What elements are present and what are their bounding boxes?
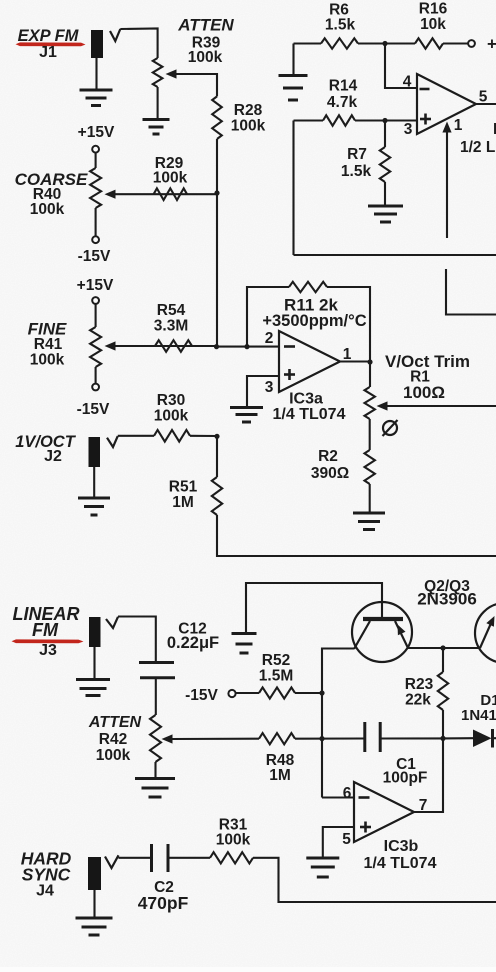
svg-text:1.5k: 1.5k [325, 17, 356, 34]
svg-text:J3: J3 [39, 642, 57, 659]
svg-text:R7: R7 [347, 146, 367, 163]
svg-text:+: + [487, 35, 496, 54]
svg-text:R54: R54 [157, 302, 186, 319]
svg-text:J2: J2 [44, 448, 62, 465]
svg-text:1/4 TL074: 1/4 TL074 [273, 406, 346, 423]
svg-text:4: 4 [403, 74, 412, 91]
svg-text:4.7k: 4.7k [327, 94, 358, 111]
svg-text:+15V: +15V [78, 124, 115, 141]
svg-text:3: 3 [404, 121, 413, 138]
svg-text:1.5k: 1.5k [341, 163, 372, 180]
svg-text:1.5M: 1.5M [259, 668, 293, 685]
svg-text:100k: 100k [30, 352, 65, 369]
svg-text:SYNC: SYNC [22, 865, 71, 885]
svg-text:R23: R23 [405, 676, 434, 693]
svg-text:22k: 22k [405, 692, 431, 709]
svg-text:R42: R42 [99, 731, 127, 748]
svg-text:IC3a: IC3a [289, 391, 323, 408]
svg-text:R28: R28 [234, 102, 263, 119]
svg-text:ATTEN: ATTEN [177, 16, 234, 35]
svg-text:FM: FM [32, 620, 59, 640]
svg-text:470pF: 470pF [138, 893, 189, 913]
svg-text:-15V: -15V [185, 687, 218, 704]
svg-text:0.22μF: 0.22μF [167, 634, 219, 652]
svg-text:100k: 100k [153, 170, 188, 187]
svg-text:100pF: 100pF [383, 770, 428, 787]
svg-text:100k: 100k [216, 832, 251, 849]
svg-text:10k: 10k [420, 16, 446, 33]
svg-text:3: 3 [265, 379, 274, 396]
svg-text:100k: 100k [188, 49, 223, 66]
svg-text:100k: 100k [231, 118, 266, 135]
svg-text:1M: 1M [269, 767, 291, 784]
svg-text:IC3b: IC3b [384, 838, 419, 855]
svg-text:5: 5 [342, 831, 351, 848]
svg-text:J1: J1 [39, 44, 57, 61]
svg-text:100Ω: 100Ω [403, 383, 445, 402]
svg-text:100k: 100k [96, 747, 131, 764]
svg-text:+3500ppm/°C: +3500ppm/°C [262, 312, 366, 330]
svg-text:EXP FM: EXP FM [18, 27, 80, 45]
svg-text:6: 6 [343, 785, 352, 802]
svg-text:1M: 1M [172, 494, 194, 511]
svg-text:-15V: -15V [78, 248, 111, 265]
svg-text:2N3906: 2N3906 [417, 590, 477, 609]
svg-text:2: 2 [265, 330, 274, 347]
svg-text:390Ω: 390Ω [311, 465, 349, 482]
svg-text:1N4148: 1N4148 [461, 707, 496, 724]
svg-text:ATTEN: ATTEN [88, 714, 142, 731]
svg-text:R52: R52 [262, 652, 290, 669]
svg-text:-15V: -15V [77, 401, 110, 418]
svg-text:1/4 TL074: 1/4 TL074 [364, 855, 437, 872]
svg-text:R30: R30 [157, 392, 185, 409]
svg-text:R14: R14 [329, 78, 358, 95]
svg-text:R41: R41 [34, 336, 63, 353]
svg-text:R2: R2 [318, 448, 338, 465]
svg-text:R51: R51 [169, 479, 198, 496]
svg-text:+15V: +15V [77, 277, 114, 294]
svg-text:100k: 100k [30, 201, 65, 218]
svg-text:J4: J4 [36, 883, 54, 900]
svg-text:1: 1 [454, 117, 463, 134]
svg-text:1/2 LM: 1/2 LM [460, 139, 496, 156]
svg-text:100k: 100k [154, 408, 189, 425]
svg-text:R16: R16 [419, 1, 448, 18]
svg-text:3.3M: 3.3M [154, 318, 188, 335]
